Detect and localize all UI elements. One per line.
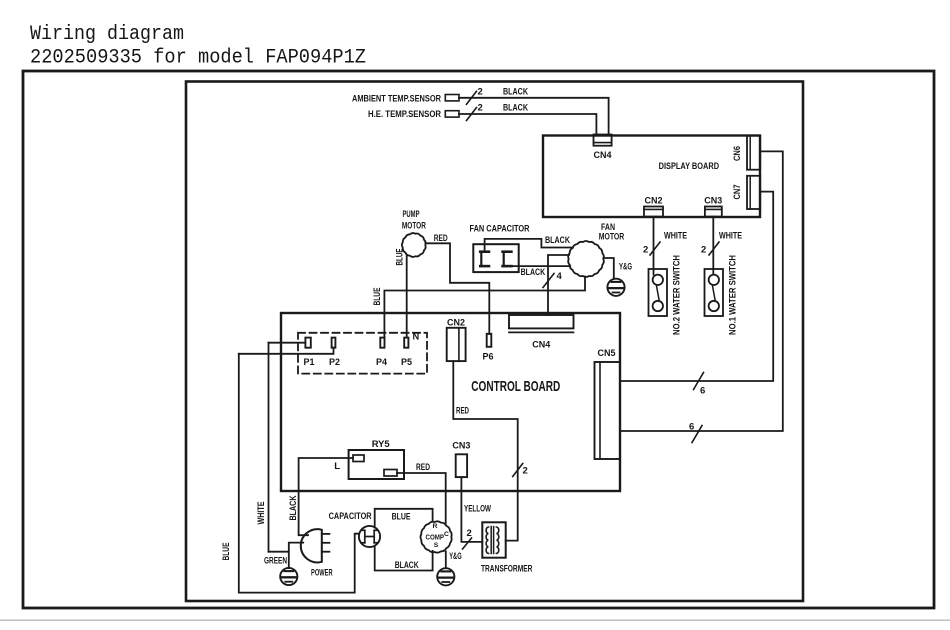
svg-text:POWER: POWER <box>311 568 333 579</box>
svg-text:CAPACITOR: CAPACITOR <box>329 511 372 522</box>
svg-text:Wiring diagram: Wiring diagram <box>30 23 184 46</box>
svg-text:RY5: RY5 <box>372 439 391 450</box>
svg-text:H.E. TEMP.SENSOR: H.E. TEMP.SENSOR <box>368 109 441 120</box>
svg-text:P6: P6 <box>483 352 494 362</box>
svg-text:BLACK: BLACK <box>503 103 528 114</box>
svg-text:CN4: CN4 <box>594 150 613 160</box>
svg-text:FAN: FAN <box>601 222 615 232</box>
svg-text:BLUE: BLUE <box>372 287 382 305</box>
svg-text:2: 2 <box>478 87 483 98</box>
svg-text:TRANSFORMER: TRANSFORMER <box>481 563 532 574</box>
svg-text:6: 6 <box>700 386 705 397</box>
svg-text:PUMP: PUMP <box>403 209 420 219</box>
svg-text:RED: RED <box>456 406 469 417</box>
svg-text:BLACK: BLACK <box>545 235 570 246</box>
svg-text:WHITE: WHITE <box>664 231 687 242</box>
svg-text:4: 4 <box>557 271 563 282</box>
svg-text:N: N <box>413 332 420 342</box>
svg-text:CONTROL BOARD: CONTROL BOARD <box>471 378 560 395</box>
svg-text:S: S <box>434 542 439 549</box>
svg-text:RED: RED <box>434 233 448 244</box>
svg-text:2: 2 <box>643 245 648 256</box>
svg-text:C: C <box>444 531 449 538</box>
svg-text:6: 6 <box>689 422 694 433</box>
svg-text:DISPLAY BOARD: DISPLAY BOARD <box>659 161 720 172</box>
svg-text:MOTOR: MOTOR <box>599 232 625 242</box>
svg-text:CN3: CN3 <box>452 441 470 451</box>
svg-text:P4: P4 <box>376 357 388 367</box>
svg-text:CN6: CN6 <box>732 146 742 161</box>
svg-text:GREEN: GREEN <box>264 556 287 567</box>
svg-text:CN7: CN7 <box>732 185 742 200</box>
svg-text:2: 2 <box>467 528 472 539</box>
svg-text:WHITE: WHITE <box>256 501 266 524</box>
svg-text:YELLOW: YELLOW <box>464 503 492 514</box>
svg-text:L: L <box>334 461 340 472</box>
svg-text:BLACK: BLACK <box>395 560 419 571</box>
svg-text:CN3: CN3 <box>704 195 722 205</box>
svg-text:COMP: COMP <box>426 532 445 541</box>
svg-text:R: R <box>433 523 438 530</box>
svg-text:AMBIENT TEMP.SENSOR: AMBIENT TEMP.SENSOR <box>352 94 441 105</box>
svg-text:NO.2 WATER SWITCH: NO.2 WATER SWITCH <box>672 255 682 335</box>
svg-text:BLACK: BLACK <box>503 87 528 98</box>
svg-text:2: 2 <box>701 245 706 256</box>
svg-text:MOTOR: MOTOR <box>402 221 426 231</box>
svg-text:2: 2 <box>478 103 483 114</box>
svg-text:P1: P1 <box>304 357 315 367</box>
svg-text:P2: P2 <box>329 357 340 367</box>
svg-text:BLUE: BLUE <box>392 512 411 523</box>
svg-text:Y&G: Y&G <box>619 261 632 272</box>
svg-text:Y&G: Y&G <box>449 551 462 562</box>
svg-text:RED: RED <box>416 462 430 473</box>
svg-text:BLACK: BLACK <box>288 495 298 521</box>
svg-text:WHITE: WHITE <box>719 231 742 242</box>
svg-text:BLUE: BLUE <box>395 248 405 265</box>
svg-text:CN4: CN4 <box>532 340 551 350</box>
svg-text:BLACK: BLACK <box>521 267 546 278</box>
svg-text:P5: P5 <box>401 357 412 367</box>
svg-text:FAN CAPACITOR: FAN CAPACITOR <box>470 224 530 235</box>
svg-text:2: 2 <box>523 466 528 477</box>
svg-text:BLUE: BLUE <box>221 542 231 560</box>
svg-text:2202509335 for model FAP094P1Z: 2202509335 for model FAP094P1Z <box>30 47 366 70</box>
svg-text:CN2: CN2 <box>447 318 465 328</box>
svg-text:NO.1 WATER SWITCH: NO.1 WATER SWITCH <box>728 255 738 335</box>
svg-text:CN2: CN2 <box>645 195 663 205</box>
svg-text:CN5: CN5 <box>598 348 616 358</box>
